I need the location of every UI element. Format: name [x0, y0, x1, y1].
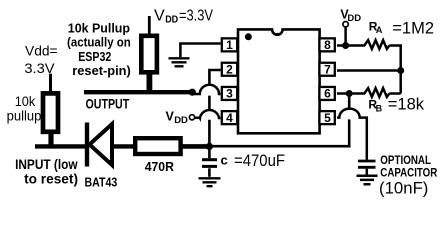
- ground symbol optional cap: [357, 176, 378, 185]
- pin 3: [222, 87, 237, 101]
- svg-text:DD: DD: [347, 13, 361, 24]
- wire pin7 to rail: [337, 69, 401, 72]
- wire 470R to junction: [181, 144, 209, 149]
- label VDD (pin4 terminal): [166, 110, 189, 127]
- svg-text:4: 4: [226, 111, 233, 125]
- svg-text:2: 2: [226, 62, 233, 76]
- pin 7: [319, 62, 334, 76]
- wire pin6 to RB: [337, 92, 362, 95]
- svg-text:c: c: [221, 153, 228, 168]
- resistor 10k pullup (top, ESP32 reset pin): [141, 36, 157, 73]
- svg-text:=470uF: =470uF: [234, 151, 285, 170]
- wire VDD to R top: [148, 16, 151, 36]
- wire INPUT line: [35, 144, 87, 148]
- wire OUTPUT bus: [84, 90, 192, 94]
- svg-text:ESP32: ESP32: [78, 49, 111, 64]
- wire RA to right rail: [389, 46, 400, 94]
- svg-text:reset-pin): reset-pin): [72, 63, 131, 78]
- svg-text:DD: DD: [174, 115, 188, 126]
- svg-text:(10nF): (10nF): [379, 178, 428, 197]
- label VDD=3.3V top: [154, 7, 214, 25]
- svg-text:470R: 470R: [145, 159, 175, 174]
- svg-text:to reset): to reset): [24, 171, 78, 186]
- svg-text:V: V: [154, 7, 165, 24]
- capacitor optional 10nF: [358, 161, 376, 175]
- label RA: [369, 20, 383, 35]
- junction output node: [189, 89, 196, 96]
- pin 4: [222, 111, 237, 125]
- resistor RA 1M2 zigzag: [362, 40, 389, 49]
- capacitor C 470uF: [202, 146, 217, 176]
- svg-text:pullup: pullup: [7, 109, 42, 124]
- junction VDD/pin8: [342, 42, 349, 49]
- pin 1: [222, 38, 237, 52]
- svg-text:=1M2: =1M2: [392, 19, 434, 37]
- wire pin2 to vertical: [209, 70, 220, 146]
- junction pin6 node: [346, 90, 353, 97]
- svg-text:1: 1: [226, 38, 233, 52]
- svg-text:BAT43: BAT43: [85, 174, 118, 189]
- wire Vdd to R pullup top: [49, 74, 52, 94]
- wire R top to OUTPUT bus: [146, 73, 152, 92]
- resistor 470R: [135, 138, 180, 154]
- svg-text:7: 7: [324, 62, 331, 76]
- wire R pullup bottom to INPUT line: [48, 131, 53, 147]
- svg-text:INPUT (low: INPUT (low: [15, 157, 78, 172]
- svg-text:8: 8: [324, 38, 331, 52]
- junction right rail pin7: [397, 67, 404, 74]
- svg-text:10k: 10k: [15, 94, 36, 109]
- wire pin5 with hop to optional capacitor: [337, 109, 367, 160]
- terminal circle VDD pin4: [189, 115, 194, 120]
- svg-text:5: 5: [324, 111, 331, 125]
- svg-text:V: V: [166, 110, 175, 124]
- resistor 10k pullup (left): [43, 93, 58, 131]
- wire pin8 to RA: [337, 44, 362, 47]
- wire trigger node to pin6 rail (under IC): [209, 94, 349, 147]
- svg-text:Vdd=: Vdd=: [25, 43, 58, 59]
- IC U1 555 body: [238, 29, 320, 133]
- wire VDD terminal to pin4 with hop: [195, 110, 221, 118]
- svg-text:6: 6: [324, 87, 331, 101]
- diode D1 BAT43: [87, 123, 112, 167]
- svg-text:=18k: =18k: [388, 96, 425, 114]
- svg-text:A: A: [376, 25, 383, 35]
- pin 6: [319, 87, 334, 101]
- svg-text:(actually on: (actually on: [67, 35, 131, 50]
- svg-text:3.3V: 3.3V: [24, 60, 55, 76]
- wire output to pin3 with hop: [192, 85, 220, 94]
- label RB: [368, 98, 382, 114]
- svg-text:B: B: [376, 103, 383, 113]
- svg-text:=3.3V: =3.3V: [179, 7, 214, 24]
- wire VDD circle to pin8 wire: [344, 27, 347, 46]
- svg-text:OUTPUT: OUTPUT: [86, 97, 130, 112]
- ground symbol pin1: [169, 44, 221, 67]
- svg-text:10k Pullup: 10k Pullup: [68, 20, 130, 35]
- terminal circle VDD pin8: [343, 22, 348, 27]
- wire RB to right rail: [389, 92, 400, 95]
- junction trigger node: [206, 143, 213, 150]
- ground symbol C470uF: [199, 178, 221, 186]
- label VDD right terminal: [340, 7, 361, 24]
- pin 8: [319, 38, 334, 52]
- pin 5: [319, 111, 334, 125]
- svg-text:DD: DD: [165, 14, 178, 26]
- pin 2: [222, 62, 237, 76]
- svg-text:3: 3: [226, 87, 233, 101]
- wire diode to 470R: [112, 144, 135, 148]
- resistor RB 18k zigzag: [362, 88, 389, 97]
- pin1 marker dot: [245, 33, 252, 40]
